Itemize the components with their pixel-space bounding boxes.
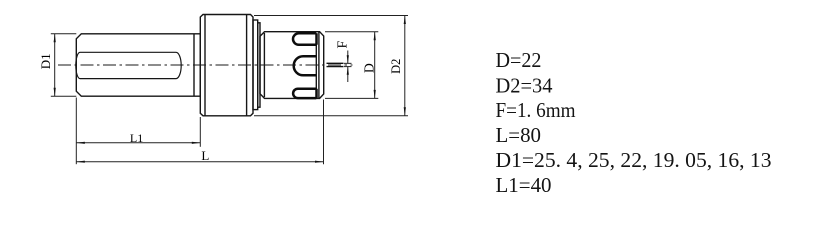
dim L1 extension right bbox=[199, 117, 201, 147]
svg-text:F: F bbox=[336, 40, 351, 48]
dim D1 line bbox=[54, 34, 56, 96]
arrow F bottom bbox=[347, 67, 349, 75]
shank bore bbox=[76, 52, 181, 78]
arrow D top bbox=[374, 32, 376, 41]
body inner line right bbox=[246, 15, 248, 116]
spacer ring 1 bbox=[253, 20, 258, 110]
arrow L1 left bbox=[76, 142, 85, 144]
collet slot top bbox=[293, 33, 317, 45]
svg-text:D1: D1 bbox=[38, 53, 53, 69]
body bbox=[200, 15, 253, 116]
svg-text:D: D bbox=[362, 63, 377, 73]
arrow D bottom bbox=[374, 90, 376, 99]
body inner line left bbox=[204, 15, 206, 116]
svg-text:D2=34: D2=34 bbox=[496, 73, 553, 97]
collet slot middle bbox=[294, 56, 317, 75]
arrow F top bbox=[347, 55, 349, 63]
arrow L right bbox=[315, 161, 324, 163]
shank bbox=[76, 34, 200, 96]
dim D line bbox=[374, 32, 376, 99]
svg-text:F=1. 6mm: F=1. 6mm bbox=[496, 98, 576, 122]
svg-text:L: L bbox=[201, 148, 209, 163]
collet nut bbox=[260, 32, 324, 99]
spacer ring 2 bbox=[258, 23, 260, 107]
collet slot bottom bbox=[293, 89, 316, 98]
svg-text:L1: L1 bbox=[130, 131, 143, 145]
dim F extension ticks bbox=[344, 62, 352, 64]
nut slot end line bbox=[315, 33, 317, 97]
dim L extension left bbox=[75, 98, 77, 165]
arrow D1 bottom bbox=[54, 88, 56, 97]
arrow D2 bottom bbox=[404, 107, 406, 116]
dim D2 line bbox=[404, 16, 406, 116]
svg-text:L1=40: L1=40 bbox=[496, 173, 552, 197]
dim L line bbox=[76, 161, 323, 163]
arrow L1 right bbox=[192, 142, 201, 144]
arrow L left bbox=[76, 161, 85, 163]
dim F line bbox=[347, 51, 349, 64]
centerline bbox=[58, 64, 353, 66]
svg-text:L=80: L=80 bbox=[496, 123, 542, 147]
nut left chamfer edge bbox=[263, 33, 265, 97]
dim D1 extension lines bbox=[51, 33, 77, 35]
dim D2 extension lines bbox=[254, 15, 408, 17]
slit F feature lines bbox=[327, 63, 344, 66]
nut face line inner bbox=[318, 32, 320, 99]
svg-text:D1=25. 4, 25, 22, 19. 05, 16,: D1=25. 4, 25, 22, 19. 05, 16, 13 bbox=[496, 148, 772, 172]
arrow D1 top bbox=[54, 34, 56, 43]
dim L1 line bbox=[76, 142, 200, 144]
shank groove line bbox=[193, 34, 195, 96]
svg-text:D2: D2 bbox=[389, 59, 403, 74]
dim D extension lines bbox=[325, 31, 378, 33]
dim L extension right bbox=[323, 100, 325, 165]
svg-text:D=22: D=22 bbox=[496, 48, 542, 72]
spec text block bbox=[496, 48, 772, 197]
arrow D2 top bbox=[404, 16, 406, 25]
